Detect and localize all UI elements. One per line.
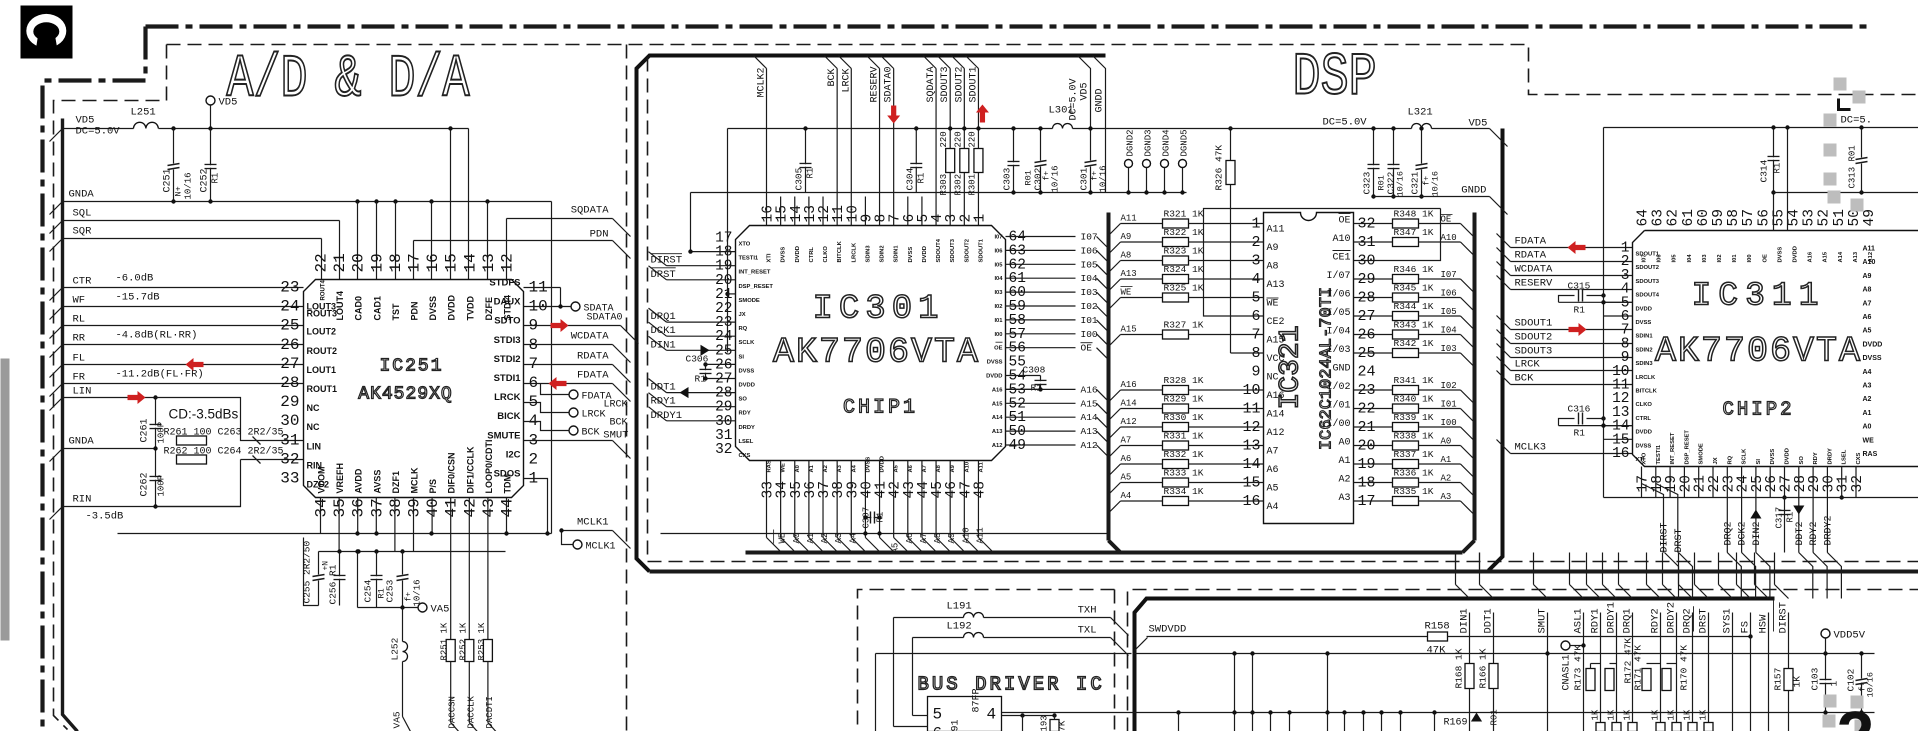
svg-text:R343 1K: R343 1K <box>1394 320 1434 331</box>
svg-text:DRQ2: DRQ2 <box>1723 521 1734 545</box>
svg-text:OE: OE <box>994 346 1003 352</box>
svg-text:R1: R1 <box>1574 305 1586 316</box>
resistor R326 47K <box>1230 129 1232 161</box>
svg-text:R158: R158 <box>1425 621 1450 633</box>
wire FL input <box>63 364 304 366</box>
svg-text:DIF0/CSN: DIF0/CSN <box>447 452 457 493</box>
svg-text:AK7706VTA: AK7706VTA <box>1655 332 1862 372</box>
svg-text:DVDD: DVDD <box>1863 341 1883 348</box>
svg-text:91: 91 <box>951 719 962 731</box>
svg-text:CNASL1: CNASL1 <box>1562 654 1573 690</box>
svg-text:C255 2R2/50: C255 2R2/50 <box>302 540 313 603</box>
svg-text:28: 28 <box>280 374 299 392</box>
IC301 top pin numbers and labels <box>761 205 989 262</box>
switch section dashed border <box>1128 590 1918 731</box>
bus driver IC box <box>928 697 1002 731</box>
svg-text:R336 1K: R336 1K <box>1394 468 1434 479</box>
svg-text:A6: A6 <box>1121 454 1132 464</box>
svg-text:A0: A0 <box>792 533 802 544</box>
VD5 rail wire over IC321 <box>1204 128 1412 130</box>
svg-text:A7: A7 <box>922 465 928 472</box>
svg-text:R170 47K: R170 47K <box>1679 645 1690 691</box>
svg-text:GNDA: GNDA <box>69 189 95 201</box>
svg-text:DVSS: DVSS <box>781 247 787 263</box>
svg-text:HSW: HSW <box>1758 614 1770 634</box>
IC321 pin8 VCC wire <box>1231 352 1264 354</box>
IC301 package outline <box>736 226 1006 461</box>
svg-text:SDOUT2: SDOUT2 <box>964 239 970 263</box>
svg-text:FS: FS <box>1740 621 1752 634</box>
capacitor C302 R01 10/16 <box>1040 129 1042 193</box>
resistor R166 1K <box>1489 664 1498 689</box>
svg-text:PDN: PDN <box>410 301 420 320</box>
svg-text:DC=5.0V: DC=5.0V <box>76 126 121 138</box>
capacitor C252 <box>210 129 212 202</box>
svg-text:A1: A1 <box>1338 456 1350 467</box>
svg-text:32: 32 <box>715 442 732 458</box>
svg-text:12: 12 <box>499 253 517 272</box>
svg-text:A1: A1 <box>1441 455 1452 465</box>
IC251 right pin numbers and labels <box>487 278 547 488</box>
red arrow up SDOUT1 <box>976 105 989 123</box>
svg-text:DDT1: DDT1 <box>651 382 676 394</box>
terminal BCK <box>524 422 569 431</box>
svg-text:A5: A5 <box>1267 484 1279 495</box>
svg-text:I04: I04 <box>1687 254 1693 263</box>
svg-text:49: 49 <box>1862 209 1878 226</box>
svg-text:R301: R301 <box>967 174 977 196</box>
svg-text:32: 32 <box>280 450 299 468</box>
dots 220 resistor rail <box>948 126 952 130</box>
svg-text:I02: I02 <box>994 304 1002 310</box>
resistor R251 1K <box>446 640 455 662</box>
svg-text:A12: A12 <box>1081 440 1098 451</box>
wire MCLK3 to IC311 <box>1497 440 1511 454</box>
svg-text:SO: SO <box>1799 456 1805 465</box>
svg-text:SDIN2: SDIN2 <box>880 245 886 262</box>
svg-text:TXL: TXL <box>1078 625 1097 637</box>
svg-text:DSP: DSP <box>1293 44 1377 112</box>
svg-text:R252 1K: R252 1K <box>458 622 468 660</box>
svg-text:ROUT3: ROUT3 <box>307 309 338 319</box>
svg-text:BICK: BICK <box>497 411 520 422</box>
svg-text:A15: A15 <box>1267 336 1285 347</box>
wire WF input <box>63 306 304 308</box>
svg-text:I01: I01 <box>1732 254 1738 263</box>
IC321 right pins <box>1326 214 1375 511</box>
svg-text:SDOUT3: SDOUT3 <box>950 238 956 262</box>
svg-text:VREFH: VREFH <box>335 463 345 494</box>
capacitor C323 <box>1373 129 1375 197</box>
svg-text:WF: WF <box>73 295 86 307</box>
svg-text:LRCK: LRCK <box>1515 359 1541 371</box>
svg-text:35: 35 <box>331 498 349 517</box>
svg-text:NC: NC <box>307 422 320 432</box>
resistor R303 220 <box>946 149 955 173</box>
svg-text:RDATA: RDATA <box>1515 250 1547 262</box>
svg-text:A14: A14 <box>1267 410 1285 421</box>
capacitor C251 <box>171 126 175 130</box>
svg-text:STDI4: STDI4 <box>503 295 513 321</box>
svg-text:51: 51 <box>1832 209 1848 226</box>
svg-text:DCK1: DCK1 <box>651 325 676 337</box>
svg-text:RESERV: RESERV <box>870 66 881 102</box>
svg-text:I00: I00 <box>1747 254 1753 262</box>
svg-text:A1: A1 <box>1863 410 1872 417</box>
svg-text:A15: A15 <box>1081 398 1098 409</box>
IC311 package outline <box>1633 231 1918 467</box>
svg-text:LRCK: LRCK <box>841 68 852 92</box>
svg-text:DVDD: DVDD <box>795 246 801 262</box>
svg-text:CAD1: CAD1 <box>372 296 382 321</box>
svg-text:A4: A4 <box>851 464 857 472</box>
svg-text:13: 13 <box>480 253 498 272</box>
svg-text:A2: A2 <box>1863 396 1872 403</box>
svg-text:1: 1 <box>972 214 988 223</box>
svg-text:DIRST: DIRST <box>1660 522 1671 552</box>
resistor R172 47K <box>1605 669 1614 691</box>
svg-text:I06: I06 <box>1081 245 1098 256</box>
svg-text:DVDD: DVDD <box>922 246 928 262</box>
terminal LRCK <box>524 403 569 413</box>
svg-text:DVDD: DVDD <box>880 456 886 472</box>
wire FR input <box>63 383 304 385</box>
svg-text:R329 1K: R329 1K <box>1164 394 1204 405</box>
logo mark <box>21 6 73 59</box>
VD5 rail wire <box>63 128 134 130</box>
svg-text:A3: A3 <box>1338 493 1350 504</box>
svg-text:DC=5.0V: DC=5.0V <box>1069 78 1080 120</box>
gray marker top right <box>1824 78 1866 212</box>
terminal SDATA <box>524 306 571 308</box>
svg-text:2: 2 <box>529 450 539 468</box>
left gray sidebar <box>1 359 10 641</box>
svg-text:R157: R157 <box>1773 668 1784 691</box>
svg-text:A6: A6 <box>905 533 915 544</box>
svg-text:WE: WE <box>1863 437 1875 444</box>
svg-text:CLKO: CLKO <box>1636 402 1653 408</box>
IC251 top pin numbers and labels <box>313 253 517 320</box>
svg-text:DIN1: DIN1 <box>651 339 676 351</box>
svg-text:C252: C252 <box>200 168 211 192</box>
svg-text:R251 1K: R251 1K <box>440 622 450 660</box>
inductor L301 <box>1053 124 1073 129</box>
svg-text:DZF1: DZF1 <box>391 471 401 494</box>
svg-text:C305: C305 <box>794 167 805 190</box>
svg-text:RQ: RQ <box>1727 455 1733 464</box>
IC251 package outline <box>304 280 524 498</box>
svg-text:A7: A7 <box>1267 447 1279 458</box>
svg-text:R331 1K: R331 1K <box>1164 431 1204 442</box>
IC251 bottom pin wires <box>321 498 507 640</box>
svg-text:ROUT1: ROUT1 <box>307 384 338 394</box>
svg-text:I/06: I/06 <box>1326 289 1350 301</box>
capacitor C301 10/16 <box>1090 129 1092 193</box>
svg-text:17: 17 <box>406 253 424 272</box>
svg-text:SCLK: SCLK <box>1742 448 1748 465</box>
svg-text:MCLK: MCLK <box>410 467 420 493</box>
svg-text:FL: FL <box>73 353 86 365</box>
svg-text:C308: C308 <box>1023 365 1046 376</box>
IC251 bottom pin numbers and labels <box>313 439 517 517</box>
svg-text:C321: C321 <box>1410 171 1421 194</box>
svg-text:44: 44 <box>499 498 517 517</box>
capacitor C322 R01 <box>1393 129 1395 197</box>
svg-text:DC=5.: DC=5. <box>1841 115 1873 127</box>
svg-text:I01: I01 <box>994 318 1003 324</box>
svg-text:A0: A0 <box>1441 437 1452 447</box>
svg-text:VCC: VCC <box>1267 354 1285 365</box>
svg-text:R321 1K: R321 1K <box>1164 209 1204 220</box>
svg-text:DVSS: DVSS <box>1770 449 1776 465</box>
svg-text:LIN: LIN <box>73 386 92 398</box>
svg-text:-6.0dB: -6.0dB <box>116 273 154 285</box>
svg-text:RDY1: RDY1 <box>651 396 676 408</box>
svg-text:SDOUT4: SDOUT4 <box>1636 293 1660 299</box>
IC301 right pin wires <box>1006 232 1109 458</box>
svg-text:A11: A11 <box>975 527 985 543</box>
svg-text:A5: A5 <box>894 464 900 472</box>
svg-text:A7: A7 <box>1863 300 1872 307</box>
svg-text:38: 38 <box>387 498 405 517</box>
svg-text:SDIN3: SDIN3 <box>865 245 871 263</box>
svg-text:R346 1K: R346 1K <box>1394 264 1434 275</box>
svg-text:RAS: RAS <box>767 460 773 472</box>
svg-text:STDI1: STDI1 <box>494 373 522 384</box>
terminal FDATA <box>541 384 569 395</box>
svg-text:SDIN1: SDIN1 <box>894 245 900 263</box>
svg-text:DVDD: DVDD <box>1636 430 1652 436</box>
svg-text:A0: A0 <box>1338 438 1350 449</box>
wire SQDATA SDOUT verticals <box>935 69 937 197</box>
svg-text:A11: A11 <box>1121 214 1137 224</box>
svg-text:64: 64 <box>1636 209 1652 226</box>
svg-text:SQDATA: SQDATA <box>571 205 610 217</box>
svg-text:DRST: DRST <box>1674 528 1685 552</box>
switch section thick border <box>1135 599 1775 731</box>
svg-text:SDOUT2: SDOUT2 <box>954 66 965 102</box>
svg-text:R342 1K: R342 1K <box>1394 338 1434 349</box>
svg-text:R169: R169 <box>1444 718 1468 729</box>
svg-text:A6: A6 <box>1863 314 1872 321</box>
svg-text:XTO: XTO <box>739 242 751 248</box>
svg-text:A15: A15 <box>1121 325 1137 335</box>
svg-text:56: 56 <box>1756 209 1772 226</box>
svg-text:24: 24 <box>1358 364 1376 381</box>
svg-text:DRQ2: DRQ2 <box>1682 608 1694 633</box>
page border dash-dot left step <box>43 27 146 731</box>
svg-text:JX: JX <box>739 312 746 318</box>
resistor R301 220 <box>974 149 983 173</box>
svg-text:I/05: I/05 <box>1326 307 1350 319</box>
svg-text:R323 1K: R323 1K <box>1164 246 1204 257</box>
inductor L252 <box>402 608 404 642</box>
svg-text:A9: A9 <box>1267 243 1279 254</box>
capacitor C321 10/16 <box>1421 129 1423 197</box>
svg-text:A6: A6 <box>908 464 914 472</box>
svg-text:A1: A1 <box>809 464 815 472</box>
capacitor C313 R01 <box>1861 128 1863 193</box>
svg-text:OE: OE <box>1081 343 1093 354</box>
DSP section thick border <box>637 56 1106 572</box>
svg-text:SDOUT3: SDOUT3 <box>1636 279 1660 285</box>
svg-text:R347 1K: R347 1K <box>1394 227 1434 238</box>
svg-text:A/D & D/A: A/D & D/A <box>227 46 470 114</box>
svg-text:RDY2: RDY2 <box>1650 608 1662 633</box>
IC301 bottom pin numbers and labels <box>761 456 989 498</box>
svg-text:LRCK: LRCK <box>582 410 606 421</box>
svg-text:DGND3: DGND3 <box>1144 129 1154 156</box>
capacitor C304 R1 <box>918 129 920 193</box>
svg-text:SQL: SQL <box>73 208 92 220</box>
svg-text:63: 63 <box>1651 209 1667 226</box>
capacitor C255 2R2/50 <box>304 538 319 606</box>
svg-text:WE: WE <box>1121 288 1132 298</box>
svg-text:DVDD: DVDD <box>447 294 457 320</box>
svg-text:I05: I05 <box>994 262 1003 268</box>
svg-text:A4: A4 <box>848 533 858 544</box>
wire SQR <box>63 238 322 240</box>
svg-text:1K: 1K <box>1792 676 1803 688</box>
svg-text:20: 20 <box>350 253 368 272</box>
svg-text:N+: N+ <box>174 186 184 196</box>
svg-text:SDIN3: SDIN3 <box>1636 361 1654 367</box>
svg-text:DRQ1: DRQ1 <box>1622 608 1634 633</box>
svg-text:LOUT4: LOUT4 <box>335 291 345 321</box>
resistor R168 1K <box>1465 664 1474 689</box>
IC301 bottom external labels <box>774 527 986 543</box>
svg-text:A9: A9 <box>1863 273 1872 280</box>
svg-text:A7: A7 <box>1121 436 1132 446</box>
wire rail y653 left <box>876 653 1132 655</box>
IC311 bottom wires and signals <box>1604 467 1918 553</box>
wire SDTO SDATA0 <box>524 325 621 327</box>
svg-text:RDY2: RDY2 <box>1809 521 1820 545</box>
svg-text:DVSS: DVSS <box>1777 247 1783 263</box>
svg-text:SDIN1: SDIN1 <box>1636 334 1654 340</box>
svg-text:SMUT: SMUT <box>603 430 628 442</box>
svg-text:220: 220 <box>953 131 963 147</box>
svg-text:RR: RR <box>73 333 86 345</box>
svg-text:I04: I04 <box>1441 326 1457 336</box>
svg-text:R173 47K: R173 47K <box>1573 645 1584 691</box>
svg-text:A10: A10 <box>1441 233 1457 243</box>
svg-text:1K: 1K <box>1651 709 1661 720</box>
svg-text:R253 1K: R253 1K <box>477 622 487 660</box>
svg-text:A10: A10 <box>964 462 970 473</box>
svg-text:A10: A10 <box>961 527 971 543</box>
svg-text:BITCLK: BITCLK <box>837 240 843 262</box>
svg-text:SDOUT1: SDOUT1 <box>978 238 984 262</box>
svg-text:LRCK: LRCK <box>494 392 521 403</box>
svg-text:R348 1K: R348 1K <box>1394 209 1434 220</box>
terminal CNASL1 <box>1561 641 1570 650</box>
inductor L321 <box>1412 124 1432 129</box>
svg-text:JX: JX <box>1713 457 1719 464</box>
svg-text:C254: C254 <box>363 579 374 602</box>
svg-text:LOUT2: LOUT2 <box>307 327 337 337</box>
svg-text:BUS DRIVER IC: BUS DRIVER IC <box>918 674 1105 696</box>
svg-text:DRDY: DRDY <box>1827 448 1833 465</box>
svg-text:SQR: SQR <box>73 226 93 238</box>
svg-text:L251: L251 <box>131 107 156 119</box>
svg-text:R333 1K: R333 1K <box>1164 468 1204 479</box>
IC311 left pin numbers and labels <box>1612 241 1660 464</box>
svg-text:A5: A5 <box>1863 328 1872 335</box>
svg-text:7K: 7K <box>1058 720 1068 731</box>
wire RR input <box>63 344 304 346</box>
red arrow FDATA <box>1568 241 1586 254</box>
resistor R193 47K <box>1050 720 1059 731</box>
triangle DIN1 <box>701 345 710 356</box>
svg-text:R337 1K: R337 1K <box>1394 449 1434 460</box>
svg-text:R332 1K: R332 1K <box>1164 449 1204 460</box>
svg-text:1K: 1K <box>1591 709 1601 720</box>
svg-text:STDI3: STDI3 <box>494 335 521 346</box>
svg-text:I06: I06 <box>1441 289 1457 299</box>
svg-text:SDOUT3: SDOUT3 <box>940 66 951 102</box>
svg-text:TST: TST <box>391 303 401 321</box>
svg-text:4: 4 <box>987 706 997 724</box>
svg-text:DC=5.0V: DC=5.0V <box>1323 117 1368 129</box>
svg-text:C304: C304 <box>904 167 915 190</box>
svg-text:I05: I05 <box>1672 254 1678 263</box>
svg-text:DVDD: DVDD <box>1793 246 1799 262</box>
capacitor C256 R1 <box>339 552 341 606</box>
svg-text:I07: I07 <box>1642 254 1648 262</box>
svg-text:A15: A15 <box>1823 251 1829 262</box>
IC311 right outer labels <box>1863 246 1883 459</box>
svg-text:DVSS: DVSS <box>908 247 914 263</box>
IC301 left side wires <box>649 252 736 422</box>
resistor R173 47K <box>1586 669 1595 691</box>
svg-text:48: 48 <box>972 481 988 498</box>
svg-text:I03: I03 <box>1081 287 1098 298</box>
svg-text:10/16: 10/16 <box>1051 165 1061 192</box>
svg-text:A9: A9 <box>1121 232 1132 242</box>
svg-text:DACDTI: DACDTI <box>485 696 495 728</box>
svg-text:CD:-3.5dBs: CD:-3.5dBs <box>169 407 239 422</box>
svg-text:I02: I02 <box>1717 254 1723 262</box>
wires SDOUT1-3 LRCK BCK to IC311 <box>1497 316 1633 385</box>
svg-text:VCOM: VCOM <box>317 467 327 494</box>
svg-text:41: 41 <box>443 498 461 517</box>
svg-text:100P: 100P <box>157 475 167 497</box>
svg-text:A7: A7 <box>919 533 929 544</box>
svg-text:A10: A10 <box>1332 234 1350 245</box>
svg-text:RDY1: RDY1 <box>1590 608 1602 633</box>
GNDD wire at border <box>1374 196 1490 198</box>
svg-text:C262: C262 <box>140 472 151 496</box>
capacitor C254 <box>376 552 378 608</box>
svg-text:GNDD: GNDD <box>1095 88 1106 112</box>
svg-text:I07: I07 <box>1441 270 1457 280</box>
svg-text:1: 1 <box>1829 681 1840 687</box>
svg-text:33: 33 <box>280 470 299 488</box>
wire SWDVDD <box>1135 638 1148 651</box>
svg-text:A16: A16 <box>992 387 1003 393</box>
resistor R157 1K <box>1784 669 1793 691</box>
svg-text:TXH: TXH <box>1078 605 1097 617</box>
svg-text:DGND4: DGND4 <box>1162 129 1172 156</box>
svg-text:39: 39 <box>406 498 424 517</box>
svg-text:DVSS: DVSS <box>428 296 438 321</box>
svg-text:AK4529XQ: AK4529XQ <box>358 385 452 405</box>
svg-text:I05: I05 <box>1441 307 1457 317</box>
svg-text:26: 26 <box>280 336 299 354</box>
svg-text:XTO: XTO <box>1642 452 1648 464</box>
svg-text:DRDY2: DRDY2 <box>1823 515 1834 545</box>
